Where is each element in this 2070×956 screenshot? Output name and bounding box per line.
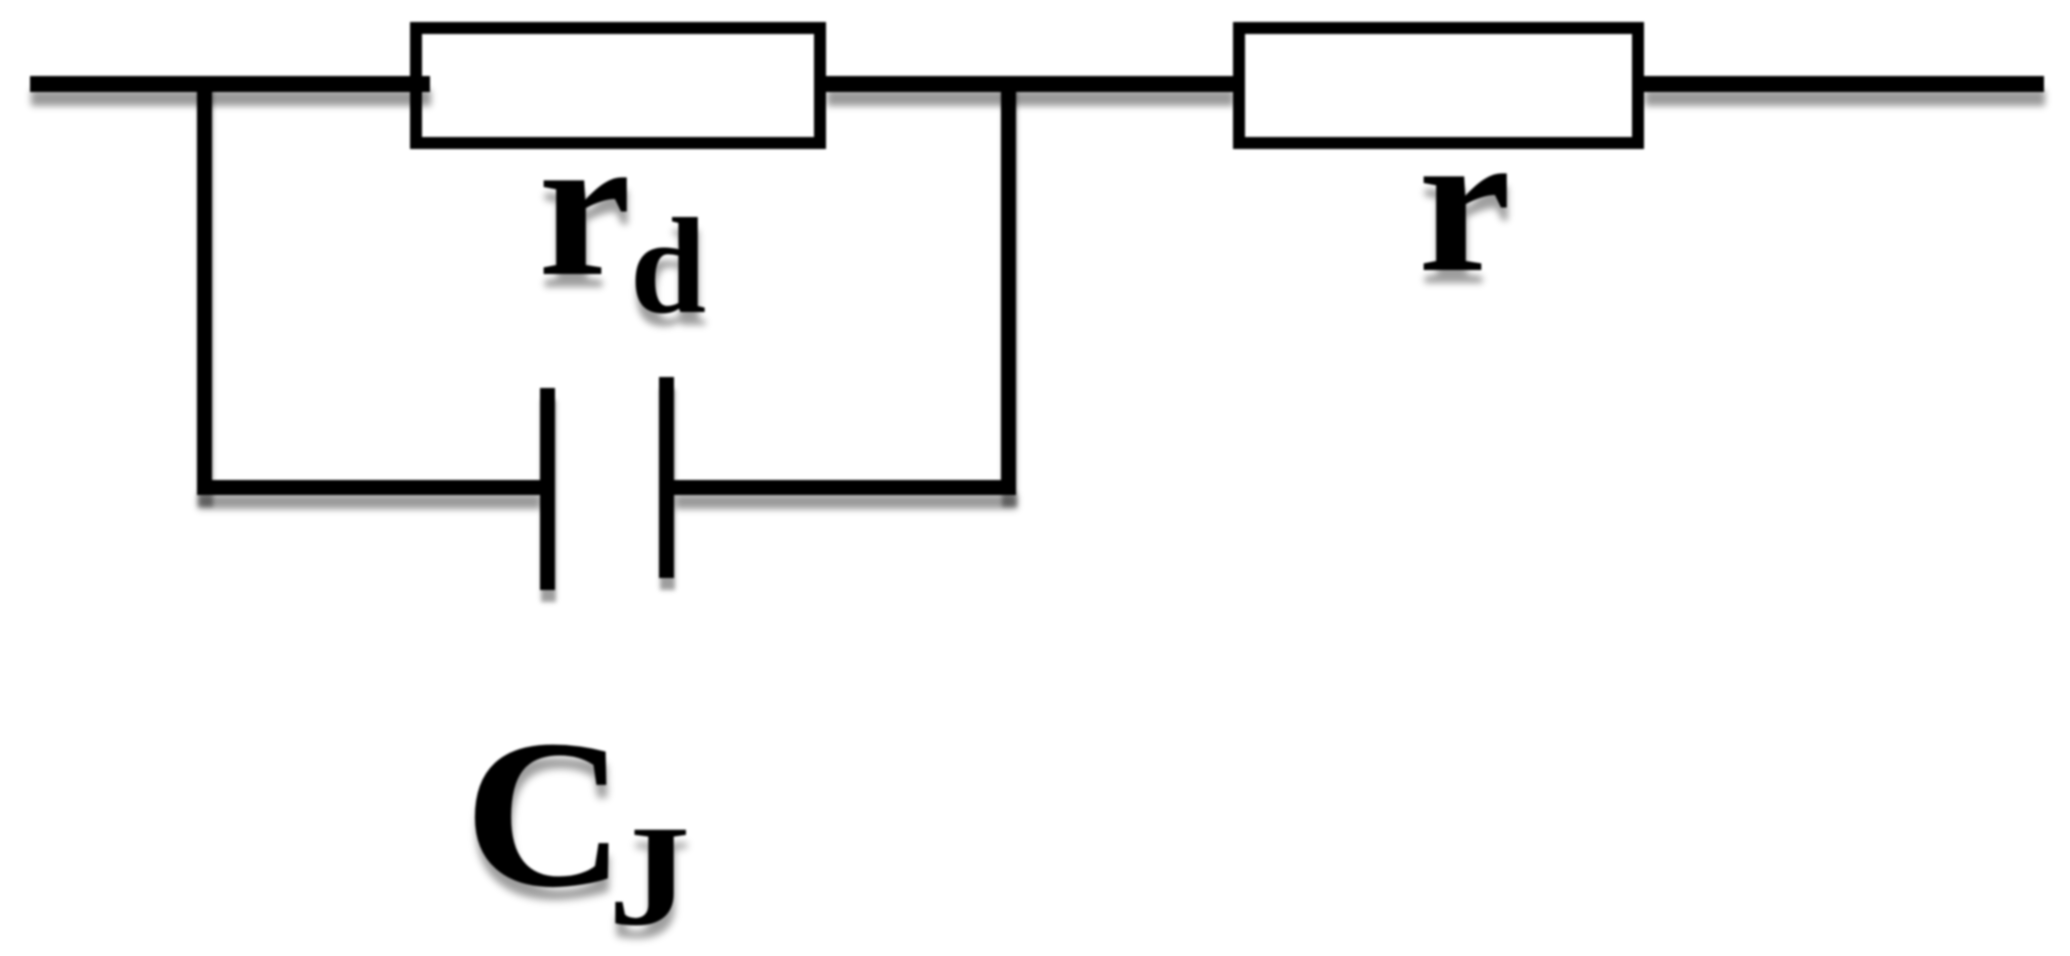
capacitor C1 right plate [659, 377, 674, 578]
wire: bottom right from capacitor [674, 480, 1016, 495]
label r_d subscript [630, 265, 706, 267]
resistor R1 (r_d) body [410, 22, 826, 149]
capacitor C1 left plate [540, 388, 555, 590]
resistor R2 (r) body [1233, 22, 1644, 149]
label C_J main [464, 813, 626, 815]
wire: between r_d and r [826, 76, 1233, 92]
wire: right lead out of r [1644, 76, 2044, 92]
label r_d main [538, 205, 631, 207]
label C_J subscript [608, 876, 690, 878]
wire: bottom left to capacitor [197, 480, 540, 495]
wire: right vertical branch [1001, 76, 1016, 495]
wire: left lead into r_d [30, 76, 430, 92]
wire: left vertical branch [197, 76, 212, 495]
label r [1418, 201, 1511, 203]
